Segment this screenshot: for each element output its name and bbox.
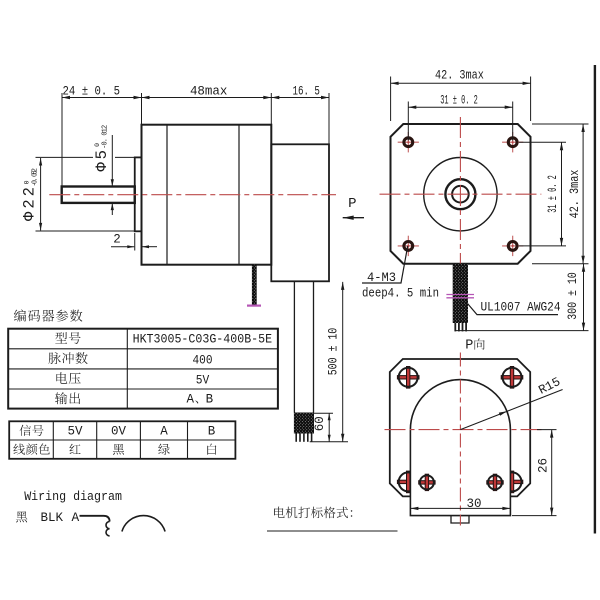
front view: horizontal centerline xyxy=(380,193,542,195)
side view: body rear section line xyxy=(238,125,240,265)
svg-text:UL1007 AWG24: UL1007 AWG24 xyxy=(481,300,561,315)
svg-text:5V: 5V xyxy=(196,373,210,387)
dimension φ5 -0.012 (shaft diameter) xyxy=(93,125,114,215)
encoder cable wire ends xyxy=(296,434,311,442)
encoder cable right edge xyxy=(313,281,315,412)
dimension 30 (cover width) xyxy=(410,497,510,511)
wiring label 黑 xyxy=(16,511,27,522)
svg-text:-0. 012: -0. 012 xyxy=(102,125,110,149)
front view: cable braid xyxy=(453,264,468,323)
side view: motor lead braid xyxy=(252,265,257,305)
svg-text:HKT3005-C03G-400B-5E: HKT3005-C03G-400B-5E xyxy=(133,332,273,347)
svg-text:500 ± 10: 500 ± 10 xyxy=(326,328,340,376)
front view: flange square with chamfered corners xyxy=(391,124,531,264)
encoder parameter table grid xyxy=(8,329,278,409)
P view: dome screw left xyxy=(419,474,435,490)
dimension 24±0.5 (shaft length) xyxy=(62,84,142,186)
svg-text:A: A xyxy=(72,510,80,525)
dimension 300±10 (cable length) xyxy=(456,264,589,331)
dimension 2 (boss protrusion) xyxy=(111,233,157,251)
svg-text:0: 0 xyxy=(94,143,101,147)
front view: cable wire ends xyxy=(455,323,466,331)
front view: shaft circle φ5 xyxy=(452,186,469,203)
table row1 label 型号 xyxy=(55,332,80,344)
dimension 48max (body length) xyxy=(142,84,272,124)
encoder table title 编码器参数 xyxy=(14,309,82,321)
wiring coil winding xyxy=(106,522,110,536)
svg-text:P: P xyxy=(348,196,356,212)
svg-text:5V: 5V xyxy=(67,425,83,439)
svg-text:B: B xyxy=(206,393,214,407)
front view: mounting hole M3 top-left xyxy=(398,141,419,143)
svg-text:2: 2 xyxy=(113,233,121,247)
svg-text:60: 60 xyxy=(313,416,327,431)
svg-text:31 ± 0. 2: 31 ± 0. 2 xyxy=(546,175,560,213)
front view: pilot boss circle φ22 xyxy=(424,158,497,231)
P view: flange square with chamfered corners xyxy=(390,359,530,496)
dimension 16.5 (housing length) xyxy=(271,84,329,144)
dimension φ22 -0.052 (pilot diameter) xyxy=(21,157,135,231)
dimension 60 (stripped length) xyxy=(310,413,348,442)
color 黑 xyxy=(113,444,124,455)
callout 4-M3 leader xyxy=(362,246,408,283)
front view: bearing circle xyxy=(445,179,475,209)
svg-text:B: B xyxy=(208,425,216,439)
svg-text:BLK: BLK xyxy=(41,510,64,525)
svg-text:P: P xyxy=(465,339,473,354)
svg-text:26: 26 xyxy=(536,458,550,473)
dimension 31±0.2 (hole spacing vertical) xyxy=(519,142,566,246)
svg-text:0: 0 xyxy=(23,180,30,184)
svg-text:48max: 48max xyxy=(190,84,228,98)
drawing frame border (right) xyxy=(594,65,596,534)
dimension 31±0.2 (hole spacing horizontal) xyxy=(408,94,512,141)
side view: axis centerline xyxy=(49,194,336,196)
svg-text:31 ± 0. 2: 31 ± 0. 2 xyxy=(440,94,478,108)
P view: corner screw top-right xyxy=(501,367,523,389)
P view: connector tab xyxy=(451,516,469,523)
table row2 label 脉冲数 xyxy=(49,352,88,364)
marking blank line xyxy=(267,530,398,532)
cable tie magenta marks xyxy=(446,294,474,296)
color 红 xyxy=(70,444,81,454)
view direction arrow xyxy=(343,217,364,219)
svg-text:400: 400 xyxy=(193,353,213,367)
side view: motor shaft xyxy=(62,187,135,203)
dimension 26 (cover height) xyxy=(512,430,557,516)
dimension 42.3max (flange width) xyxy=(391,69,531,121)
svg-text:42. 3max: 42. 3max xyxy=(568,170,582,219)
svg-text:300 ± 10: 300 ± 10 xyxy=(566,272,580,320)
side view: encoder housing outline xyxy=(271,144,329,281)
svg-text:A: A xyxy=(160,425,168,439)
encoder cable left edge xyxy=(293,281,295,412)
color 绿 xyxy=(158,444,170,455)
P view: corner screw top-left xyxy=(397,367,419,389)
svg-text:A: A xyxy=(187,393,195,407)
label 电机打标格式： xyxy=(274,507,352,519)
signal label 信号 xyxy=(20,425,44,436)
P view: horizontal centerline xyxy=(385,429,544,431)
signal/color table grid xyxy=(9,421,235,459)
color label 线颜色 xyxy=(13,443,49,454)
svg-text:0V: 0V xyxy=(111,425,127,439)
svg-text:42. 3max: 42. 3max xyxy=(435,69,484,83)
front view: mounting hole M3 top-right xyxy=(502,141,523,143)
encoder cable braid block xyxy=(294,413,314,434)
wiring wire from A xyxy=(80,516,110,522)
side view: motor body outline xyxy=(142,125,272,265)
dimension 42.3max (flange height) xyxy=(532,124,589,264)
P view: vertical centerline xyxy=(459,353,461,526)
side view: purple mark under braid xyxy=(247,305,261,307)
table row4 label 输出 xyxy=(55,392,80,404)
P view: encoder cover dome R15 xyxy=(410,380,510,516)
P view label P向 xyxy=(465,339,484,354)
svg-text:24 ± 0. 5: 24 ± 0. 5 xyxy=(63,84,121,98)
svg-text:-0. 052: -0. 052 xyxy=(32,168,40,187)
radius R15 leader xyxy=(460,390,562,430)
wiring motor circle (cropped) xyxy=(122,516,165,532)
svg-text:deep4. 5 min: deep4. 5 min xyxy=(362,286,439,301)
front view: mounting hole M3 bottom-right xyxy=(502,245,523,247)
svg-text:Wiring diagram: Wiring diagram xyxy=(24,489,122,504)
callout UL1007 AWG24 leader xyxy=(468,304,559,315)
P view: corner screw bottom-right xyxy=(501,471,523,493)
svg-text:4-M3: 4-M3 xyxy=(367,270,396,285)
side view: body front section line xyxy=(166,125,168,265)
dimension 500±10 (encoder cable length) xyxy=(326,282,344,442)
svg-text:Φ22: Φ22 xyxy=(21,187,39,221)
front view: mounting hole M3 bottom-left xyxy=(398,245,419,247)
side view: front pilot boss (phi22) xyxy=(135,157,142,231)
svg-text:16. 5: 16. 5 xyxy=(292,84,320,98)
table row3 label 电压 xyxy=(56,372,80,384)
P view: corner screw bottom-left xyxy=(397,471,419,493)
color 白 xyxy=(207,444,216,455)
svg-text:30: 30 xyxy=(466,497,481,511)
P view: dome screw right xyxy=(487,474,503,490)
front view: vertical centerline xyxy=(459,117,461,264)
